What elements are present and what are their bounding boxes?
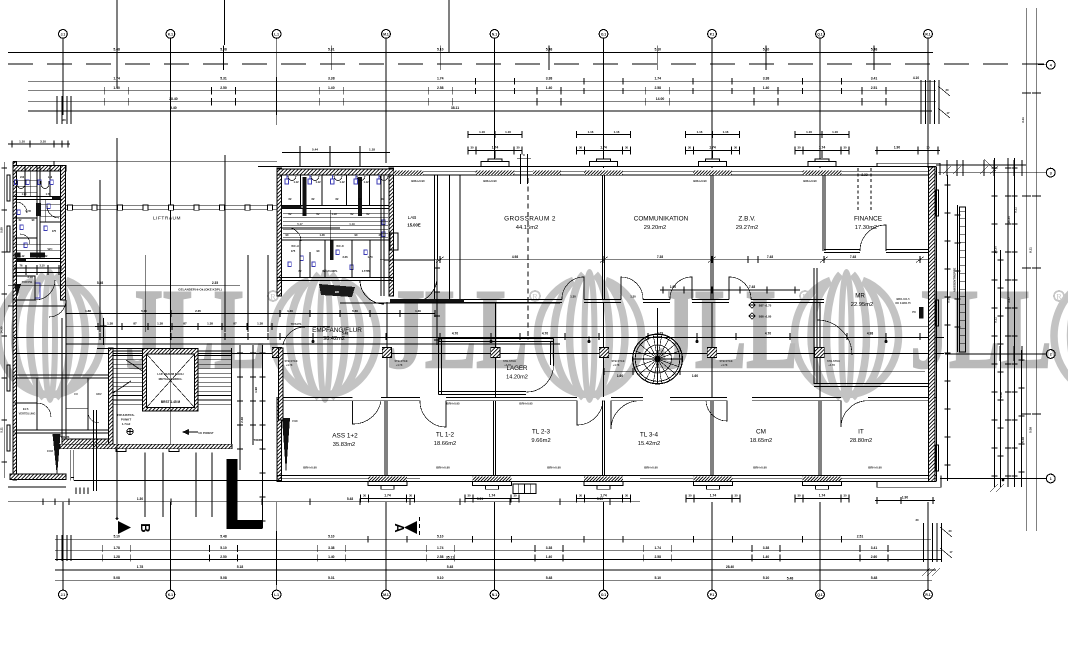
svg-text:TL 2-3: TL 2-3	[532, 429, 551, 436]
svg-text:4.98: 4.98	[867, 332, 873, 336]
stair area vertical dims	[93, 410, 95, 491]
svg-text:44.15m2: 44.15m2	[516, 225, 539, 231]
svg-text:1.28: 1.28	[113, 555, 120, 559]
svg-text:4.98: 4.98	[512, 255, 518, 259]
wc core inner clutter	[283, 212, 388, 214]
top grid bubbles	[59, 30, 68, 39]
svg-text:WC-F1.90PL: WC-F1.90PL	[322, 269, 338, 273]
svg-text:PUNKT: PUNKT	[121, 418, 132, 422]
lower-left block south wall	[62, 439, 112, 445]
svg-text:28.40: 28.40	[726, 565, 734, 569]
svg-text:18.66m2: 18.66m2	[434, 441, 457, 447]
small tick cluster terrace	[75, 488, 77, 495]
empfang dim lines	[66, 313, 435, 315]
svg-text:R: R	[270, 292, 276, 301]
svg-text:30: 30	[579, 494, 583, 498]
svg-text:M.1: M.1	[383, 593, 389, 597]
svg-text:STB-STGE: STB-STGE	[284, 359, 297, 363]
svg-text:R.1: R.1	[925, 32, 930, 36]
svg-text:1.7m2: 1.7m2	[122, 422, 131, 426]
svg-text:3.38: 3.38	[546, 76, 553, 80]
left wing mid black bits	[15, 253, 21, 258]
bottom right extra slashes	[922, 568, 930, 576]
svg-text:5.10: 5.10	[437, 576, 444, 580]
left wing black wedge	[53, 434, 61, 477]
svg-text:A: A	[392, 523, 407, 533]
svg-text:5.31: 5.31	[328, 576, 335, 580]
svg-text:5.48: 5.48	[447, 565, 454, 569]
svg-text:1.98: 1.98	[254, 387, 258, 393]
svg-text:BRH+0.90: BRH+0.90	[803, 179, 817, 183]
svg-text:1.74: 1.74	[819, 146, 826, 150]
svg-text:+4.78: +4.78	[286, 363, 293, 367]
svg-text:1.70: 1.70	[22, 193, 27, 196]
svg-text:F90: F90	[292, 419, 298, 423]
svg-text:MR: MR	[855, 293, 865, 300]
svg-text:1.74: 1.74	[709, 146, 716, 150]
svg-text:BRH+0.90: BRH+0.90	[693, 179, 707, 183]
svg-text:18.65m2: 18.65m2	[750, 438, 773, 444]
svg-text:CO2: CO2	[47, 449, 54, 453]
spiral stair	[633, 334, 683, 384]
svg-text:BRH+0.90: BRH+0.90	[547, 465, 561, 469]
svg-text:30: 30	[62, 118, 66, 122]
svg-text:BRH+0.90: BRH+0.90	[411, 179, 425, 183]
svg-text:87: 87	[183, 322, 187, 326]
wc core black bars	[303, 177, 307, 216]
svg-text:30: 30	[470, 146, 474, 150]
svg-text:Z.B.V.: Z.B.V.	[738, 216, 755, 223]
svg-text:30: 30	[513, 494, 517, 498]
svg-text:+4.78: +4.78	[396, 363, 403, 367]
svg-text:BRH+0.95: BRH+0.95	[446, 402, 460, 406]
svg-text:1.16: 1.16	[832, 130, 838, 134]
svg-text:1.10: 1.10	[19, 139, 25, 143]
svg-text:3.10: 3.10	[40, 139, 46, 143]
section marker A	[404, 521, 417, 534]
svg-text:1.38: 1.38	[207, 322, 213, 326]
svg-text:30: 30	[797, 146, 801, 150]
svg-text:1.77PE: 1.77PE	[362, 269, 371, 273]
svg-text:30: 30	[516, 146, 520, 150]
left wing dim cluster	[14, 267, 62, 269]
top-right tick cluster	[920, 80, 922, 124]
wc core top dim verticals	[299, 146, 301, 166]
top grid verticals	[62, 43, 64, 104]
svg-text:5.44: 5.44	[312, 148, 318, 152]
svg-text:5.08: 5.08	[220, 576, 227, 580]
svg-text:1.88: 1.88	[85, 309, 91, 313]
top wall windows	[476, 171, 515, 175]
right mid tick cluster	[999, 346, 1001, 361]
bottom wall with windows	[277, 475, 936, 477]
svg-text:1.19: 1.19	[349, 222, 355, 226]
survey diamonds zbv	[749, 302, 755, 308]
luftraum columns	[67, 205, 72, 210]
svg-text:1.74: 1.74	[710, 494, 717, 498]
svg-text:1.74: 1.74	[600, 146, 607, 150]
svg-text:5.08: 5.08	[0, 227, 4, 233]
svg-text:5.10: 5.10	[763, 576, 770, 580]
bottom-right tick cluster	[923, 523, 925, 562]
svg-text:K.1: K.1	[168, 593, 173, 597]
svg-text:K.1: K.1	[168, 32, 173, 36]
empfang wall	[279, 348, 284, 420]
svg-text:1.70: 1.70	[46, 193, 51, 196]
left wing extra lines	[15, 179, 38, 181]
bottom grid bubbles	[62, 502, 64, 590]
svg-text:4: 4	[1050, 63, 1052, 67]
svg-text:+4.78: +4.78	[721, 363, 728, 367]
svg-text:17.30m2: 17.30m2	[855, 225, 878, 231]
svg-text:3.38: 3.38	[328, 76, 335, 80]
svg-text:1.90: 1.90	[902, 496, 908, 500]
west wall bottom block	[277, 397, 282, 481]
svg-text:30: 30	[688, 494, 692, 498]
svg-text:TL 3-4: TL 3-4	[640, 432, 659, 439]
svg-text:1.60: 1.60	[692, 374, 698, 378]
svg-text:30: 30	[926, 146, 930, 150]
svg-text:29.20m2: 29.20m2	[644, 225, 667, 231]
svg-text:22.95m2: 22.95m2	[851, 302, 874, 308]
svg-text:1.00: 1.00	[670, 285, 676, 289]
svg-text:LAGER: LAGER	[507, 365, 529, 372]
svg-text:1.30: 1.30	[630, 295, 636, 299]
svg-text:17: 17	[947, 111, 950, 115]
svg-text:BRH+0.90: BRH+0.90	[753, 465, 767, 469]
svg-text:L52: L52	[20, 176, 25, 179]
svg-text:J.1: J.1	[61, 593, 66, 597]
svg-text:5.48: 5.48	[787, 576, 794, 580]
right horizontal connectors	[938, 172, 1038, 174]
svg-text:BRH+0.90: BRH+0.90	[303, 465, 317, 469]
svg-text:N.1: N.1	[492, 593, 497, 597]
stair block top wall	[109, 348, 114, 445]
extra window-edge ticks bottom	[367, 536, 369, 543]
wc core lower partitions	[299, 240, 301, 278]
svg-text:3.38: 3.38	[763, 546, 770, 550]
svg-text:B08 +1.80: B08 +1.80	[759, 315, 772, 319]
section marker B	[118, 521, 131, 534]
svg-text:2.35: 2.35	[195, 309, 201, 313]
wc core door arcs bottom	[360, 281, 384, 305]
svg-text:5.48: 5.48	[871, 48, 878, 52]
svg-text:14.00: 14.00	[656, 97, 665, 101]
svg-text:1.16: 1.16	[723, 130, 729, 134]
svg-text:1.48: 1.48	[319, 233, 325, 237]
svg-text:P.1: P.1	[710, 32, 715, 36]
top dim line 2	[28, 80, 936, 82]
svg-text:7.48: 7.48	[749, 285, 755, 289]
right wall window bumps	[936, 190, 939, 216]
bottom window dim rows	[361, 498, 415, 500]
svg-text:2.58: 2.58	[437, 555, 444, 559]
svg-text:1: 1	[1050, 477, 1052, 481]
left wing extra black bits	[52, 197, 61, 200]
svg-text:1.12: 1.12	[20, 255, 25, 258]
svg-text:5.10: 5.10	[437, 48, 444, 52]
svg-text:1.30: 1.30	[415, 309, 421, 313]
svg-text:7.38: 7.38	[657, 255, 663, 259]
corridor dim line	[14, 336, 944, 338]
svg-text:Q.1: Q.1	[817, 593, 822, 597]
svg-text:WC-D: WC-D	[336, 244, 344, 248]
partition O	[601, 175, 603, 300]
svg-text:1.18: 1.18	[369, 148, 375, 152]
luftraum column line	[66, 205, 277, 207]
svg-text:2.58: 2.58	[654, 86, 661, 90]
svg-text:5.31: 5.31	[328, 48, 335, 52]
svg-text:ASS 1+2: ASS 1+2	[332, 433, 358, 440]
svg-text:30: 30	[949, 529, 952, 533]
left wing blue fixtures	[15, 180, 54, 298]
svg-text:87: 87	[233, 322, 237, 326]
svg-text:CM: CM	[756, 429, 766, 436]
svg-text:3.38: 3.38	[328, 546, 335, 550]
bottom window dim extra right	[875, 500, 935, 502]
svg-text:1.74: 1.74	[819, 494, 826, 498]
wc core toilets blue	[285, 175, 385, 269]
svg-text:1.12: 1.12	[293, 180, 299, 184]
main top wall	[394, 166, 937, 168]
top dashed axis line	[8, 63, 1044, 65]
top offices south wall	[437, 299, 562, 301]
svg-text:2.35: 2.35	[212, 281, 218, 285]
corridor line upper	[66, 325, 936, 327]
svg-text:2.50: 2.50	[220, 555, 227, 559]
svg-text:LAB: LAB	[408, 215, 417, 220]
svg-text:2.38: 2.38	[240, 417, 244, 423]
svg-text:J.1: J.1	[61, 32, 66, 36]
left wing interior partitions	[15, 196, 62, 198]
svg-text:1.78: 1.78	[113, 546, 120, 550]
svg-text:1.40: 1.40	[328, 555, 335, 559]
threshold black bar	[390, 299, 464, 303]
bottom-left tick cluster	[56, 535, 58, 561]
svg-text:14.20m2: 14.20m2	[506, 375, 528, 381]
luftraum aux verticals	[99, 180, 101, 332]
zbv dim ticks	[745, 259, 762, 261]
svg-text:30: 30	[734, 494, 738, 498]
svg-text:IT: IT	[858, 429, 864, 436]
svg-text:9.66m2: 9.66m2	[531, 438, 550, 444]
svg-text:FINANCE: FINANCE	[854, 216, 882, 223]
svg-text:L.1: L.1	[274, 32, 279, 36]
svg-text:1.74: 1.74	[600, 494, 607, 498]
svg-text:17: 17	[950, 550, 953, 554]
svg-text:30: 30	[797, 494, 801, 498]
svg-text:5.48: 5.48	[546, 576, 553, 580]
svg-text:5.31: 5.31	[477, 497, 483, 501]
axis dots	[312, 340, 315, 343]
svg-text:5.11: 5.11	[994, 317, 998, 323]
svg-text:L53: L53	[48, 176, 53, 179]
exterior steps south	[513, 484, 536, 494]
svg-text:GROSSRAUM 2: GROSSRAUM 2	[504, 216, 556, 223]
svg-text:5.30: 5.30	[141, 309, 147, 313]
svg-text:TRP.PB: TRP.PB	[22, 280, 33, 284]
right boundary cross ticks	[1022, 92, 1031, 94]
svg-text:P.1: P.1	[710, 593, 715, 597]
p8 black rect	[919, 307, 924, 319]
svg-text:OK 0.98/0.75: OK 0.98/0.75	[895, 301, 911, 305]
partition finance west	[822, 175, 824, 251]
svg-text:30: 30	[946, 88, 949, 92]
svg-text:1.38: 1.38	[157, 322, 163, 326]
ass black wedge	[282, 418, 290, 474]
svg-text:5.08: 5.08	[1029, 427, 1033, 433]
svg-text:1.16: 1.16	[505, 130, 511, 134]
svg-text:BRH+0.90: BRH+0.90	[483, 179, 497, 183]
finance corridor dim row	[660, 289, 800, 291]
wc core stall partitions	[300, 175, 302, 205]
svg-text:5.60: 5.60	[352, 309, 358, 313]
svg-text:2.51: 2.51	[857, 535, 864, 539]
svg-text:30: 30	[916, 518, 919, 522]
svg-text:4.70: 4.70	[765, 332, 771, 336]
wc core bottom wall	[277, 277, 394, 279]
svg-text:TL 1-2: TL 1-2	[436, 432, 455, 439]
svg-text:5.48: 5.48	[347, 497, 353, 501]
svg-text:1.19: 1.19	[331, 212, 337, 216]
bottom partitions	[384, 401, 386, 476]
top corner parapet	[877, 162, 940, 164]
lager room	[438, 338, 440, 395]
corridor dim ticks	[99, 333, 101, 340]
dashed pair right of dim lines	[857, 168, 859, 212]
svg-text:2.51: 2.51	[871, 86, 878, 90]
interior dim line top offices	[380, 259, 936, 261]
svg-text:4.70: 4.70	[542, 332, 548, 336]
svg-text:1.30: 1.30	[570, 295, 576, 299]
svg-text:5.08: 5.08	[1021, 437, 1025, 443]
wc core sink arcs	[288, 176, 388, 181]
svg-text:5.11: 5.11	[0, 427, 4, 433]
svg-text:2.26: 2.26	[342, 255, 348, 259]
svg-text:R.1: R.1	[925, 593, 930, 597]
bottom corner parapet	[877, 486, 941, 488]
svg-text:7.48: 7.48	[767, 255, 773, 259]
svg-text:B07 +1.75: B07 +1.75	[759, 304, 772, 308]
svg-text:7.48: 7.48	[850, 255, 856, 259]
top aux verticals	[224, 0, 226, 45]
top dim line 4	[28, 101, 936, 103]
entrance door arc	[283, 327, 305, 345]
svg-text:3.41: 3.41	[871, 546, 878, 550]
svg-text:5.48: 5.48	[220, 535, 227, 539]
svg-text:EDV: EDV	[96, 392, 102, 396]
svg-text:STB-STGE: STB-STGE	[503, 359, 516, 363]
survey flag	[182, 429, 189, 435]
svg-text:5.10: 5.10	[437, 535, 444, 539]
elevator shaft	[143, 349, 199, 412]
left edge dim line	[3, 162, 5, 478]
svg-text:5.08: 5.08	[97, 281, 103, 285]
svg-text:1.90: 1.90	[894, 146, 900, 150]
svg-text:WC-H: WC-H	[291, 244, 299, 248]
svg-text:LIFTRAUM: LIFTRAUM	[153, 216, 181, 222]
svg-text:5.11: 5.11	[1014, 207, 1018, 213]
svg-text:P8: P8	[912, 310, 916, 314]
mr door	[817, 320, 852, 355]
top office doors	[562, 277, 584, 300]
svg-text:5.17: 5.17	[297, 222, 303, 226]
aux bottom verticals	[116, 490, 118, 517]
svg-text:STB-STGE: STB-STGE	[719, 359, 732, 363]
svg-text:AUSSENTREPPE: AUSSENTREPPE	[953, 268, 957, 293]
left wing door arc lower	[49, 300, 66, 317]
svg-text:B: B	[138, 523, 153, 532]
svg-text:1.74: 1.74	[489, 494, 496, 498]
svg-text:O.1: O.1	[601, 593, 606, 597]
svg-text:JLL: JLL	[387, 267, 528, 392]
svg-text:+4.78: +4.78	[828, 363, 835, 367]
svg-text:30: 30	[467, 494, 471, 498]
terrace lines	[8, 501, 640, 503]
svg-text:30: 30	[843, 494, 847, 498]
grossraum window edge dims	[520, 154, 522, 184]
mr room walls	[813, 268, 815, 384]
svg-text:M.1: M.1	[383, 32, 389, 36]
svg-text:BRH+0.90: BRH+0.90	[644, 465, 658, 469]
svg-text:8.11: 8.11	[1029, 247, 1033, 253]
svg-text:28.80m2: 28.80m2	[850, 438, 873, 444]
finance door	[860, 225, 886, 251]
top dim line 5	[28, 110, 932, 112]
extra window-edge ticks top	[475, 78, 477, 85]
svg-text:BRH+0.90: BRH+0.90	[436, 465, 450, 469]
top overall dimension line	[8, 51, 933, 53]
svg-text:N.1: N.1	[492, 32, 497, 36]
svg-text:3: 3	[1050, 171, 1052, 175]
top-right tick cluster 2	[936, 164, 1026, 166]
svg-text:O.1: O.1	[601, 32, 606, 36]
svg-text:1.74: 1.74	[384, 494, 391, 498]
svg-text:3.41: 3.41	[871, 76, 878, 80]
aussentreppe	[960, 207, 966, 352]
left wing lower rooms	[15, 374, 113, 376]
svg-text:1.30: 1.30	[287, 309, 293, 313]
svg-text:1.38: 1.38	[107, 322, 113, 326]
svg-text:5.10: 5.10	[328, 535, 335, 539]
svg-text:28.40: 28.40	[169, 97, 178, 101]
bottom dim ticks	[62, 531, 64, 585]
structural columns	[272, 348, 281, 358]
top dim line 3	[28, 90, 936, 92]
svg-text:98.42m2: 98.42m2	[323, 336, 345, 342]
right boundary verticals	[1025, 8, 1027, 531]
grossraum glass verticals	[449, 175, 451, 302]
top right cluster slashes	[943, 166, 951, 174]
svg-text:38.11: 38.11	[451, 106, 459, 110]
svg-text:T30/RS: T30/RS	[254, 438, 263, 442]
svg-text:1.40: 1.40	[546, 86, 553, 90]
svg-text:2.58: 2.58	[655, 555, 662, 559]
top-left tick cluster	[56, 96, 58, 124]
top dim ticks at grid	[62, 77, 64, 115]
svg-text:1.16: 1.16	[697, 130, 703, 134]
svg-text:2.50: 2.50	[220, 86, 227, 90]
svg-text:1.16: 1.16	[588, 130, 594, 134]
svg-text:VERTEILUNG: VERTEILUNG	[19, 412, 36, 416]
svg-text:5.48: 5.48	[871, 576, 878, 580]
svg-text:30: 30	[843, 146, 847, 150]
svg-text:5.10: 5.10	[763, 48, 770, 52]
svg-text:R: R	[1056, 292, 1062, 301]
svg-text:1.30: 1.30	[137, 497, 143, 501]
svg-text:3.47: 3.47	[1007, 297, 1011, 303]
svg-text:5.10: 5.10	[220, 546, 227, 550]
